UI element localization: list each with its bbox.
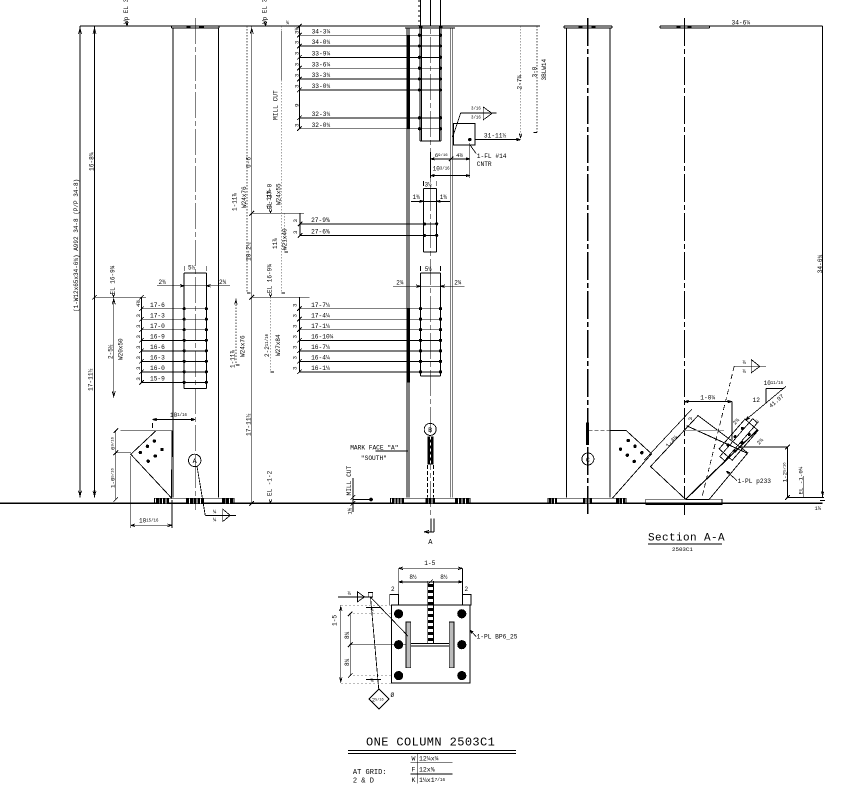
svg-text:B: B <box>428 427 432 435</box>
svg-text:1¼: 1¼ <box>815 505 822 512</box>
svg-text:16-7¼: 16-7¼ <box>311 344 330 351</box>
svg-text:11⅞: 11⅞ <box>272 238 279 249</box>
svg-text:16-4¼: 16-4¼ <box>311 355 330 362</box>
svg-text:1¾: 1¾ <box>413 194 421 201</box>
svg-text:W27x84: W27x84 <box>275 334 282 356</box>
svg-text:3: 3 <box>292 219 299 223</box>
svg-text:1-PL BP6_25: 1-PL BP6_25 <box>477 634 518 641</box>
svg-text:1-0¼: 1-0¼ <box>700 394 715 401</box>
svg-text:10-2½: 10-2½ <box>245 242 252 261</box>
svg-text:3-0: 3-0 <box>532 66 539 77</box>
svg-text:15-9: 15-9 <box>150 376 165 383</box>
svg-text:3: 3 <box>292 313 299 317</box>
svg-text:ONE COLUMN 2503C1: ONE COLUMN 2503C1 <box>366 736 495 750</box>
svg-text:W: W <box>412 756 416 763</box>
svg-text:2: 2 <box>391 586 395 593</box>
svg-text:3: 3 <box>135 335 142 339</box>
svg-text:Wp EL 34-8: Wp EL 34-8 <box>123 0 130 24</box>
svg-text:2-5½: 2-5½ <box>108 344 115 359</box>
svg-text:3: 3 <box>294 40 301 44</box>
svg-text:3½: 3½ <box>425 182 433 189</box>
svg-text:32-3¼: 32-3¼ <box>312 111 331 118</box>
svg-text:C: C <box>586 457 590 465</box>
svg-text:1-25/16: 1-25/16 <box>781 462 788 483</box>
svg-text:32-0¼: 32-0¼ <box>312 122 331 129</box>
svg-text:(1-W12x65x34-6¼) A992 34-8: (1-W12x65x34-6¼) A992 34-8 (P/P 34-8) <box>73 179 80 312</box>
svg-text:Ø: Ø <box>391 692 395 699</box>
svg-text:69/16: 69/16 <box>435 152 449 159</box>
svg-text:1-5: 1-5 <box>424 560 435 567</box>
svg-text:1-05/16: 1-05/16 <box>110 467 117 488</box>
svg-text:16-1¼: 16-1¼ <box>311 365 330 372</box>
svg-text:3/16: 3/16 <box>471 116 481 121</box>
svg-text:3: 3 <box>292 303 299 307</box>
svg-text:3: 3 <box>294 51 301 55</box>
svg-text:3: 3 <box>135 377 142 381</box>
svg-text:2 & D: 2 & D <box>353 777 374 785</box>
svg-text:2¾: 2¾ <box>219 279 227 286</box>
svg-text:3: 3 <box>294 84 301 88</box>
svg-text:69/16: 69/16 <box>110 436 117 450</box>
svg-text:16-6: 16-6 <box>150 344 165 351</box>
svg-text:2¾: 2¾ <box>396 279 404 286</box>
svg-text:2¾: 2¾ <box>454 279 462 286</box>
svg-text:3: 3 <box>135 313 142 317</box>
svg-text:2-7¾: 2-7¾ <box>517 75 524 90</box>
svg-text:103/16: 103/16 <box>433 166 451 173</box>
svg-text:3: 3 <box>687 417 694 421</box>
svg-text:8¼: 8¼ <box>344 658 351 666</box>
svg-text:17-0: 17-0 <box>150 323 165 330</box>
svg-text:EL 16-9¾: EL 16-9¾ <box>267 264 274 293</box>
svg-text:17-4¼: 17-4¼ <box>311 312 330 319</box>
svg-text:¾: ¾ <box>286 21 289 27</box>
svg-text:16-9: 16-9 <box>150 334 165 341</box>
svg-text:33-9¼: 33-9¼ <box>312 51 331 58</box>
svg-text:1015/16: 1015/16 <box>139 518 159 525</box>
svg-text:F: F <box>412 767 416 774</box>
svg-text:AT GRID:: AT GRID: <box>353 769 387 777</box>
svg-text:1-FL #14: 1-FL #14 <box>477 153 507 160</box>
svg-text:EL 16-9¾: EL 16-9¾ <box>110 265 117 294</box>
svg-text:3: 3 <box>292 230 299 234</box>
svg-text:1-PL p233: 1-PL p233 <box>738 478 772 485</box>
svg-text:2503C1: 2503C1 <box>672 546 693 553</box>
svg-text:2: 2 <box>465 586 469 593</box>
svg-text:1¾: 1¾ <box>440 194 448 201</box>
svg-text:27-9⅝: 27-9⅝ <box>311 217 330 224</box>
svg-text:W20x50: W20x50 <box>118 338 125 360</box>
svg-text:16-10¼: 16-10¼ <box>311 334 334 341</box>
svg-text:"SOUTH": "SOUTH" <box>361 455 387 462</box>
svg-text:3: 3 <box>292 366 299 370</box>
svg-text:8½: 8½ <box>409 574 417 581</box>
svg-text:3: 3 <box>294 62 301 66</box>
svg-text:3BLW14: 3BLW14 <box>541 58 548 80</box>
svg-text:5½: 5½ <box>188 265 196 272</box>
svg-text:16-0: 16-0 <box>150 365 165 372</box>
svg-text:3½: 3½ <box>294 27 301 34</box>
svg-text:3: 3 <box>135 356 142 360</box>
svg-text:17-1¼: 17-1¼ <box>311 323 330 330</box>
svg-text:3: 3 <box>294 123 301 127</box>
svg-text:5½: 5½ <box>425 266 433 273</box>
svg-text:3: 3 <box>292 345 299 349</box>
svg-text:3: 3 <box>135 345 142 349</box>
svg-text:12: 12 <box>753 397 761 404</box>
svg-text:8½: 8½ <box>440 574 448 581</box>
svg-text:3: 3 <box>292 324 299 328</box>
svg-text:33-6¼: 33-6¼ <box>312 61 331 68</box>
svg-text:16-3: 16-3 <box>150 355 165 362</box>
svg-text:3/16: 3/16 <box>471 107 481 112</box>
svg-text:33-0¼: 33-0¼ <box>312 83 331 90</box>
svg-text:9: 9 <box>294 103 301 107</box>
svg-text:¾: ¾ <box>371 678 374 684</box>
svg-text:4½: 4½ <box>456 152 463 159</box>
svg-text:17-7¼: 17-7¼ <box>311 302 330 309</box>
svg-text:K: K <box>412 777 416 784</box>
svg-text:MARK FACE "A": MARK FACE "A" <box>350 445 398 452</box>
svg-text:1¼x17/16: 1¼x17/16 <box>419 777 446 784</box>
svg-text:1-11⅝: 1-11⅝ <box>266 190 273 208</box>
svg-text:17-11½: 17-11½ <box>88 368 95 391</box>
svg-text:33-3¼: 33-3¼ <box>312 72 331 79</box>
svg-text:2-211/16: 2-211/16 <box>264 333 271 357</box>
svg-text:17-6: 17-6 <box>150 302 165 309</box>
svg-text:2¾: 2¾ <box>159 279 167 286</box>
svg-text:1-11⅞: 1-11⅞ <box>229 350 236 368</box>
svg-text:8¼: 8¼ <box>344 631 351 639</box>
svg-text:MILL CUT: MILL CUT <box>346 466 353 496</box>
svg-text:W24x55: W24x55 <box>276 183 283 205</box>
svg-text:CNTR: CNTR <box>477 161 492 168</box>
svg-text:27-6⅝: 27-6⅝ <box>311 229 330 236</box>
svg-text:12¼x¾: 12¼x¾ <box>419 756 439 763</box>
svg-text:1-11⅞: 1-11⅞ <box>232 193 239 211</box>
svg-text:16-8¾: 16-8¾ <box>89 152 96 171</box>
svg-text:3: 3 <box>135 366 142 370</box>
svg-text:3: 3 <box>135 324 142 328</box>
svg-text:17-11½: 17-11½ <box>245 413 252 436</box>
svg-text:1½: 1½ <box>347 507 354 514</box>
svg-text:17-3: 17-3 <box>150 312 165 319</box>
svg-text:34-6¼: 34-6¼ <box>817 255 824 274</box>
svg-text:101/16: 101/16 <box>170 412 188 419</box>
svg-text:31-11½: 31-11½ <box>484 132 507 139</box>
svg-text:Section A-A: Section A-A <box>648 533 725 545</box>
svg-text:3: 3 <box>292 335 299 339</box>
svg-text:34-3¼: 34-3¼ <box>312 28 331 35</box>
svg-text:4½: 4½ <box>135 300 142 307</box>
svg-text:34-6¼: 34-6¼ <box>732 20 751 27</box>
svg-text:W21x40: W21x40 <box>282 228 289 250</box>
svg-text:1-5: 1-5 <box>332 615 339 626</box>
svg-text:12x⅝: 12x⅝ <box>419 767 435 774</box>
svg-text:6-6: 6-6 <box>245 157 252 168</box>
svg-text:1011/16: 1011/16 <box>764 380 784 387</box>
svg-text:3: 3 <box>294 73 301 77</box>
svg-text:Wp EL 34-8: Wp EL 34-8 <box>262 0 269 24</box>
svg-text:EL -1-2: EL -1-2 <box>267 470 274 496</box>
svg-text:MILL CUT: MILL CUT <box>273 90 280 120</box>
svg-text:34-0¼: 34-0¼ <box>312 39 331 46</box>
svg-text:W24x76: W24x76 <box>240 335 247 357</box>
svg-text:3: 3 <box>292 356 299 360</box>
svg-text:W24x76: W24x76 <box>241 186 248 208</box>
